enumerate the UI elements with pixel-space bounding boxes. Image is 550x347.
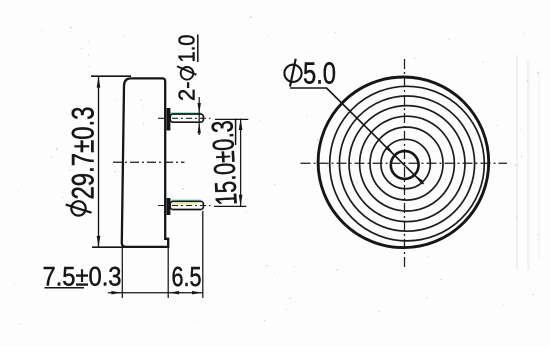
15.0 bottom arrowhead <box>239 195 243 207</box>
underline under 1.0 <box>197 35 199 63</box>
2-dia1.0 lower arrowhead <box>198 122 201 133</box>
leader underline below dia 5.0 <box>290 87 327 89</box>
leader arrowhead upper-left <box>386 147 394 155</box>
bottom extension line at body left <box>121 248 123 298</box>
bottom dimension line <box>108 292 203 294</box>
15.0 bottom extension line <box>214 205 246 207</box>
bottom pin shaft <box>170 201 203 209</box>
dia 29.7 top arrowhead <box>97 76 101 88</box>
arrowhead at 122 pointing right <box>111 291 122 294</box>
bottom pin teal scan tint <box>170 199 201 201</box>
body horizontal centerline <box>113 161 185 163</box>
arrowhead at 166 pointing left <box>168 291 179 294</box>
arrowhead at 202 pointing right <box>192 291 203 294</box>
outer circle (bold) <box>318 77 489 248</box>
dia 29.7 bottom extension line <box>92 246 124 248</box>
leader diagonal line <box>327 88 424 184</box>
svg-text:6.5: 6.5 <box>172 261 202 292</box>
2-dia1.0 upper arrowhead <box>198 103 201 114</box>
top pin flange <box>167 108 171 131</box>
ring r36.5 <box>370 127 443 200</box>
bottom pin centerline <box>158 205 211 207</box>
leader arrowhead lower-right <box>415 175 423 183</box>
2-dia1.0 leader line through pin <box>198 97 200 135</box>
dia 29.7 bottom arrowhead <box>97 236 101 248</box>
15.0 top arrowhead <box>239 118 243 130</box>
buzzer body (side view) with bottom-right lip <box>122 78 168 247</box>
svg-text:29.7±0.3: 29.7±0.3 <box>65 107 101 200</box>
dia symbol of label 29.7 <box>71 201 85 215</box>
underline under 7.5 <box>45 287 85 289</box>
dia symbol of label 2-dia1.0 <box>181 67 194 80</box>
dia 29.7 top extension line <box>91 75 131 77</box>
front view vertical centerline <box>404 59 406 268</box>
ring r77 <box>330 86 485 241</box>
svg-text:15.0±0.3: 15.0±0.3 <box>206 120 244 207</box>
ring r24.7 <box>381 139 430 188</box>
15.0 dimension line <box>240 119 242 207</box>
dia 29.7 dimension line <box>98 76 100 247</box>
ring r58 <box>349 106 465 222</box>
top pin shaft <box>170 114 203 122</box>
faint scanner streaks <box>516 55 518 270</box>
ring r67.6 <box>339 96 474 231</box>
top pin centerline <box>158 117 211 119</box>
bottom pin flange <box>167 198 171 215</box>
svg-text:1.0: 1.0 <box>174 35 200 63</box>
ring r47.4 <box>360 116 455 211</box>
bottom pin yellow scan tint <box>172 203 198 205</box>
center hole circle dia 5.0 (bold) <box>391 151 419 179</box>
top pin teal scan tint <box>170 112 201 114</box>
bottom extension line at pin end <box>202 211 204 298</box>
svg-text:5.0: 5.0 <box>303 56 336 91</box>
svg-text:2-: 2- <box>174 82 200 102</box>
bottom extension line at body right <box>167 247 169 298</box>
15.0 top extension line <box>215 118 248 120</box>
front view horizontal centerline <box>301 162 508 164</box>
underline beside 0.3 of 15.0 label <box>235 119 237 146</box>
dia symbol of label 5.0 <box>284 65 301 82</box>
